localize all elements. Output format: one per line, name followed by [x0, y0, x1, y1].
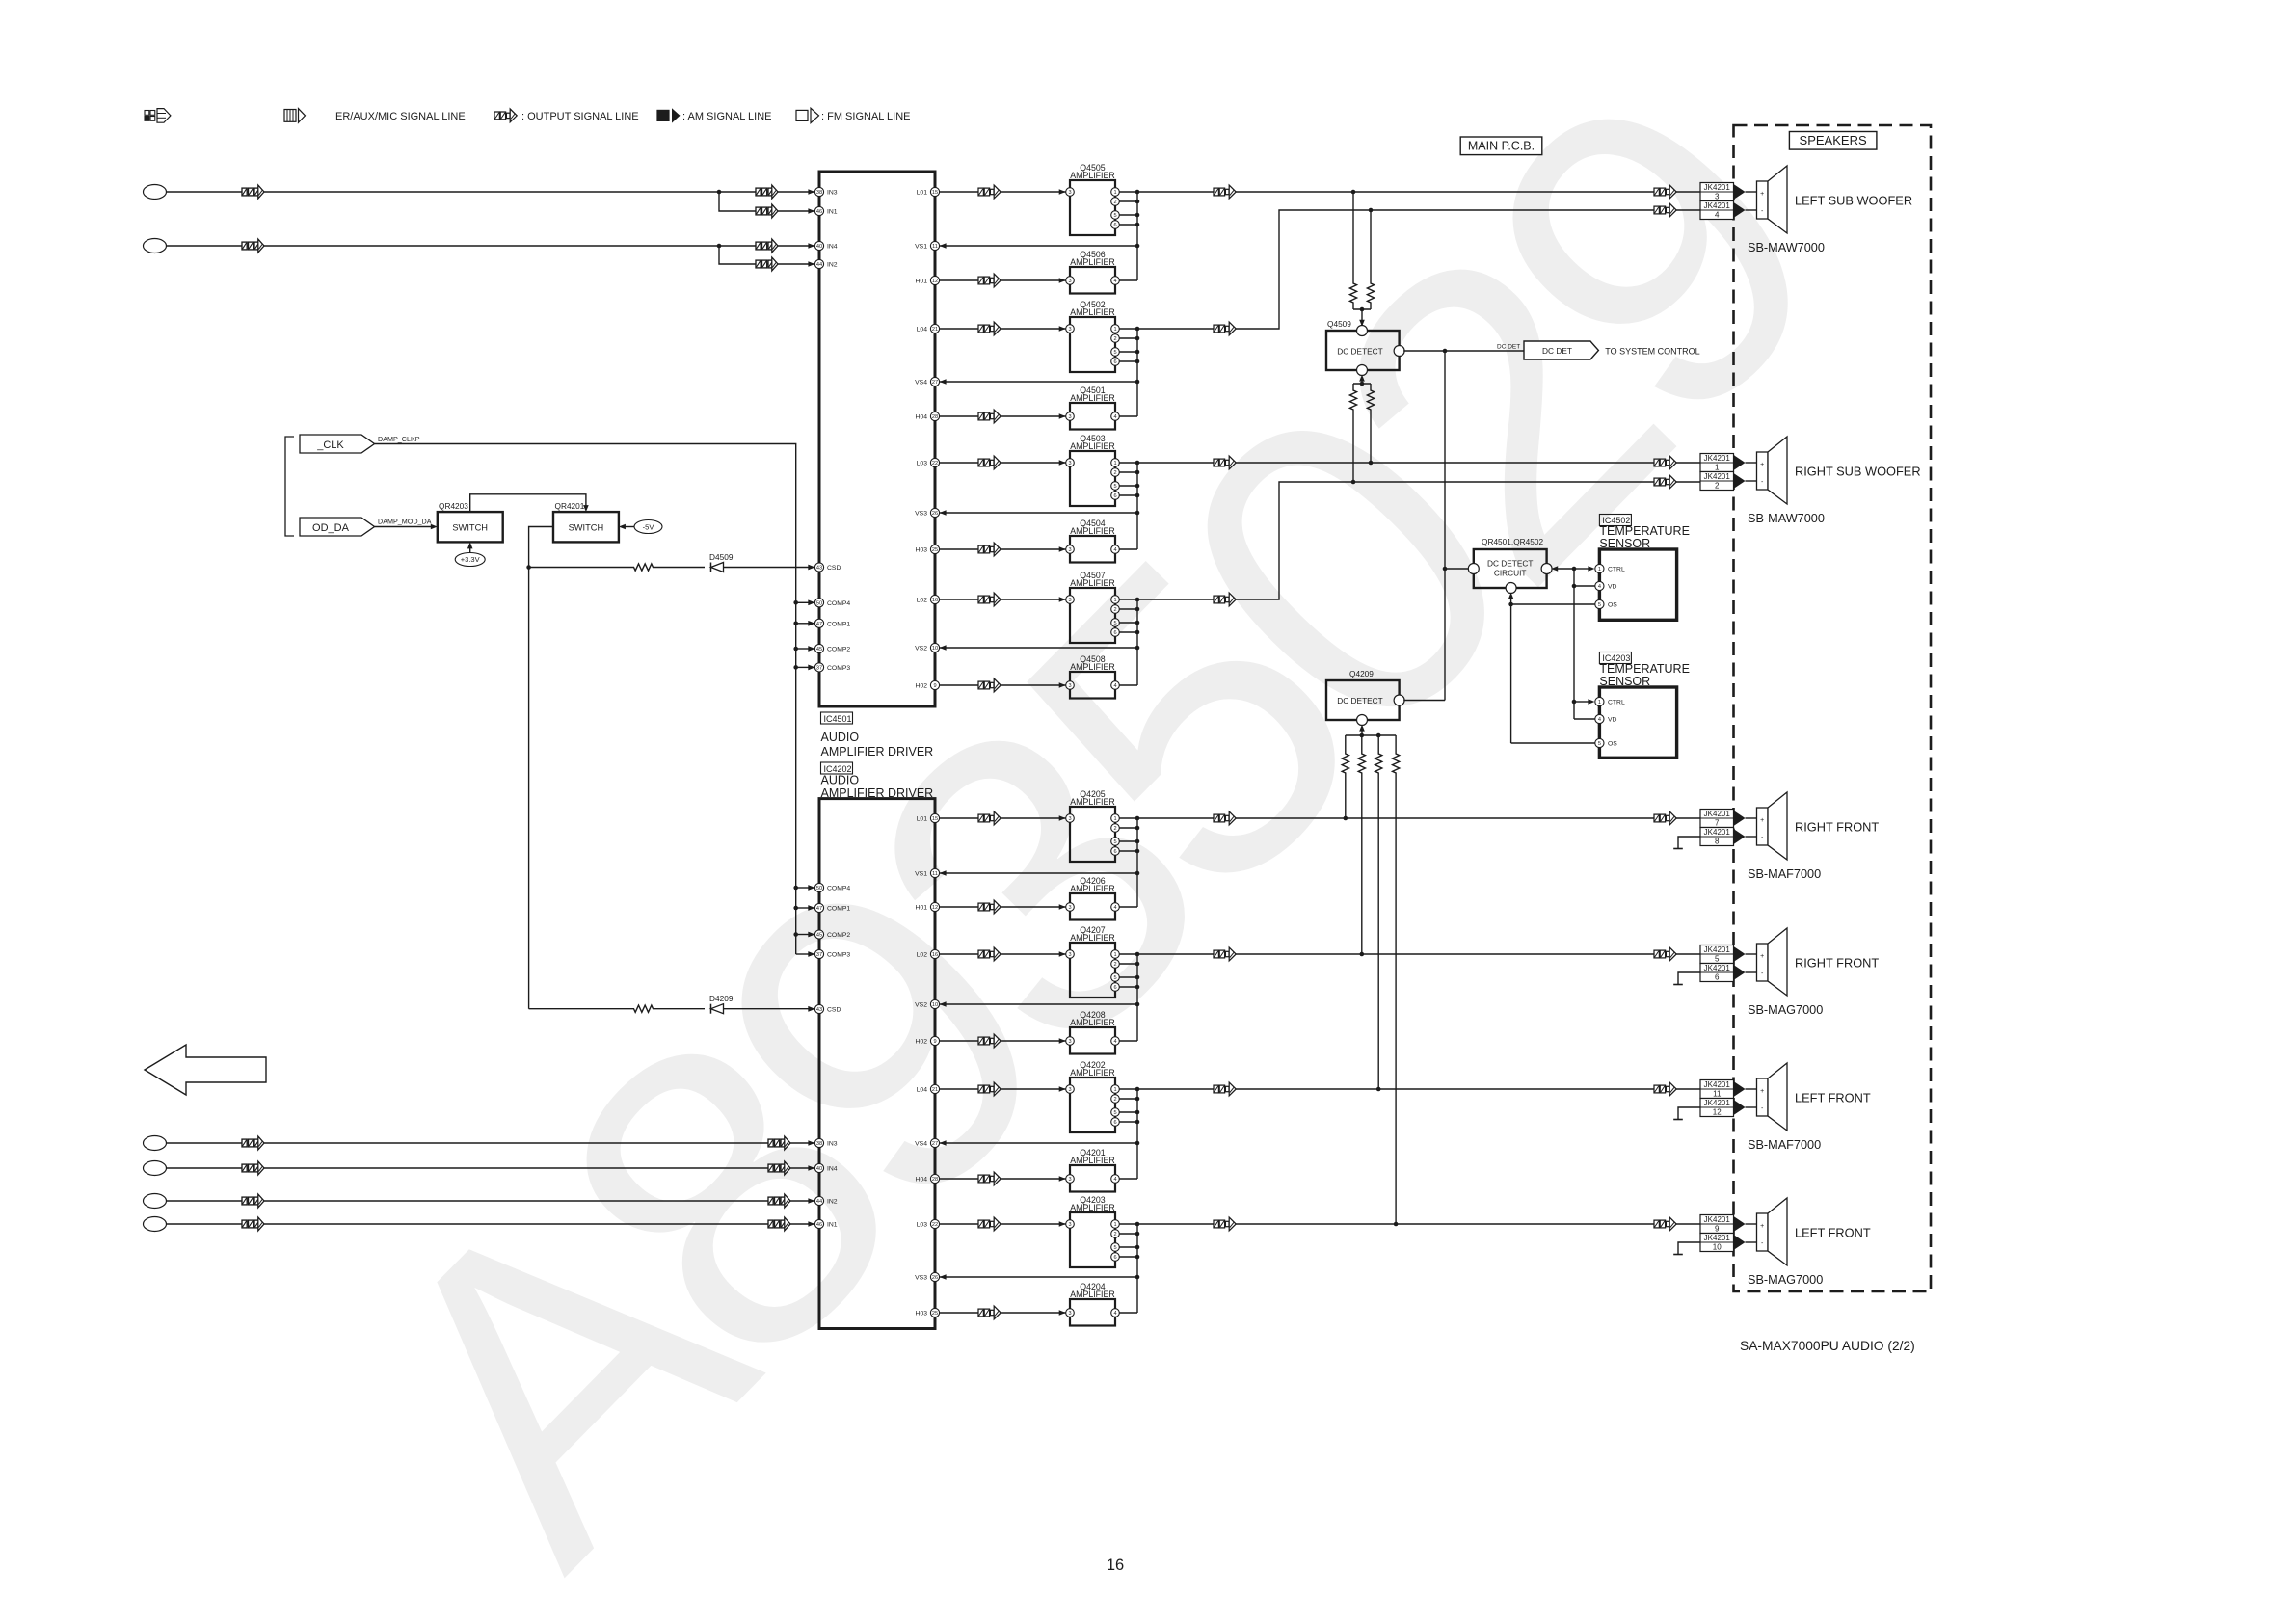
wire Q4202 pin to bus: [1119, 1098, 1137, 1100]
node flag _CLK: [300, 435, 375, 453]
svg-text:AMPLIFIER: AMPLIFIER: [1070, 1203, 1114, 1212]
svg-text:2: 2: [1113, 1232, 1116, 1237]
signal arrow: [242, 185, 264, 199]
svg-text:4: 4: [1113, 1311, 1116, 1317]
wire VS feedback: [940, 512, 1137, 514]
arrowhead: [1059, 815, 1066, 821]
IC U-IC4202 audio amplifier driver box: [819, 799, 935, 1329]
label SENSOR (IC4502): [1599, 537, 1650, 550]
arrowhead: [808, 885, 814, 891]
svg-text:DAMP_MOD_DA: DAMP_MOD_DA: [378, 518, 432, 526]
svg-text:4: 4: [1113, 683, 1116, 689]
junction: [793, 647, 798, 652]
label AMPLIFIER (Q4204): [1070, 1290, 1114, 1299]
signal arrow: [978, 900, 1001, 914]
junction: [793, 906, 798, 911]
label AMPLIFIER (Q4208): [1070, 1018, 1114, 1027]
svg-text:11: 11: [1713, 1090, 1722, 1099]
svg-text:40: 40: [816, 1166, 822, 1172]
arrowhead: [1059, 460, 1066, 466]
svg-text:9: 9: [933, 683, 936, 689]
svg-text:3: 3: [1068, 952, 1071, 958]
label AMPLIFIER (Q4508): [1070, 662, 1114, 672]
wire switch link: [470, 494, 586, 512]
signal arrow: [978, 274, 1001, 287]
svg-text:CSD: CSD: [827, 565, 841, 572]
signal arrow: [1214, 185, 1236, 199]
resistor: [1342, 735, 1348, 791]
arrowhead: [467, 542, 473, 548]
wire Q4505 pin to bus: [1119, 224, 1137, 226]
junction: [1135, 952, 1140, 957]
DC detect circuit QR4501,QR4502 box: [1468, 549, 1552, 594]
svg-text:21: 21: [932, 1087, 938, 1093]
svg-text:3: 3: [1068, 414, 1071, 420]
svg-text:27: 27: [932, 1141, 938, 1147]
svg-text:VS3: VS3: [915, 511, 927, 518]
wire VS feedback: [940, 1276, 1137, 1278]
wire sense from L01: [1352, 192, 1354, 277]
page arrow: [145, 1045, 266, 1095]
wire Q4203 output: [1119, 1223, 1236, 1225]
arrowhead: [1734, 184, 1746, 200]
junction: [1508, 602, 1513, 607]
wire input: [167, 1142, 815, 1144]
wire negative stub: [1678, 972, 1700, 985]
wire CTRL2: [1574, 701, 1589, 703]
svg-text:L03: L03: [917, 1222, 928, 1229]
label Q4506: [1080, 250, 1106, 259]
svg-text:VS4: VS4: [915, 1141, 927, 1148]
label Q4203: [1080, 1195, 1106, 1205]
junction: [1351, 480, 1356, 485]
svg-text:VS2: VS2: [915, 1002, 927, 1009]
arrowhead: [808, 621, 814, 626]
wire Q4207 pin to bus: [1119, 976, 1137, 978]
label AMPLIFIER DRIVER (IC4202): [821, 786, 934, 800]
legend symbol: AM signal line: [657, 108, 681, 122]
svg-text:6: 6: [1113, 359, 1116, 365]
switch QR4201 box: [553, 512, 619, 542]
signal arrow: [1214, 322, 1236, 335]
svg-text:4: 4: [1113, 905, 1116, 911]
terminator bar: [1673, 984, 1683, 986]
wire input: [167, 245, 815, 247]
svg-text:JK4201: JK4201: [1704, 828, 1731, 837]
wire DC bus: [1444, 351, 1446, 701]
svg-text:CSD: CSD: [827, 1007, 841, 1014]
junction: [793, 622, 798, 626]
pin 4 VD (IC4502): [1595, 581, 1617, 590]
title SA-MAX7000PU AUDIO (2/2): [1740, 1339, 1915, 1353]
label AUDIO (IC4501): [821, 731, 860, 744]
svg-text:AMPLIFIER DRIVER: AMPLIFIER DRIVER: [821, 786, 934, 800]
arrowhead: [1059, 1176, 1066, 1182]
svg-text:IN3: IN3: [827, 1141, 838, 1148]
svg-text:+: +: [1760, 191, 1764, 198]
wire Q4207 output: [1119, 953, 1236, 955]
svg-text:JK4201: JK4201: [1704, 1080, 1731, 1089]
junction: [1135, 826, 1140, 831]
label AMPLIFIER (Q4507): [1070, 578, 1114, 588]
wire VS feedback: [940, 1003, 1137, 1005]
junction: [1572, 567, 1577, 572]
svg-text:AUDIO: AUDIO: [821, 731, 860, 744]
wire L out to Q4502: [940, 328, 1066, 330]
legend symbol: ER/AUX/MIC signal line: [284, 109, 306, 123]
wire to speaker -: [1746, 836, 1757, 838]
svg-text:IN1: IN1: [827, 1222, 838, 1229]
wire Q4204 pin4 to bus: [1119, 1312, 1137, 1314]
svg-text:6: 6: [1113, 630, 1116, 636]
svg-text:28: 28: [932, 1177, 938, 1183]
signal arrow: [978, 678, 1001, 692]
signal arrow: [1654, 203, 1676, 217]
signal arrow: [1214, 456, 1236, 469]
svg-text:1: 1: [1113, 816, 1116, 822]
svg-text:CTRL: CTRL: [1608, 567, 1625, 573]
junction: [1135, 816, 1140, 821]
pin 25 H03: [916, 545, 940, 553]
svg-text:3: 3: [1068, 1039, 1071, 1045]
wire VD1: [1574, 585, 1595, 587]
junction: [1135, 336, 1140, 341]
svg-text:DAMP_CLKP: DAMP_CLKP: [378, 435, 420, 443]
svg-text:DC DET: DC DET: [1542, 346, 1572, 356]
label TEMPERATURE (IC4203): [1599, 662, 1690, 676]
svg-text:LEFT FRONT: LEFT FRONT: [1795, 1226, 1871, 1240]
signal arrow: [1654, 947, 1676, 961]
svg-text:2: 2: [1113, 200, 1116, 205]
svg-text:DC DETECT: DC DETECT: [1337, 347, 1382, 357]
wire bus: [1136, 818, 1138, 907]
junction: [1572, 700, 1577, 705]
junction: [1135, 607, 1140, 612]
svg-text:SB-MAG7000: SB-MAG7000: [1748, 1273, 1823, 1287]
svg-text:IN4: IN4: [827, 1166, 838, 1173]
pin 45 COMP2: [808, 930, 850, 939]
amplifier Q4202: [1066, 1078, 1120, 1132]
diode D4509: [711, 563, 724, 572]
terminator bar: [1673, 848, 1683, 850]
svg-text:4: 4: [1113, 1177, 1116, 1183]
pin 45 COMP2: [808, 644, 850, 652]
svg-text:25: 25: [932, 547, 938, 553]
svg-text:JK4201: JK4201: [1704, 964, 1731, 972]
wire sense: [1361, 791, 1363, 954]
svg-text:AMPLIFIER: AMPLIFIER: [1070, 1018, 1114, 1027]
svg-text:43: 43: [816, 566, 822, 572]
svg-text:+: +: [1760, 953, 1764, 960]
wire Q4205 pin to bus: [1119, 827, 1137, 829]
signal arrow: [242, 1217, 264, 1231]
label Q4207: [1080, 925, 1106, 935]
svg-text:+: +: [1760, 462, 1764, 468]
pin 47 COMP1: [808, 903, 850, 912]
svg-text:50: 50: [816, 600, 822, 606]
label Q4502: [1080, 300, 1106, 309]
svg-text:Q4509: Q4509: [1327, 319, 1351, 329]
svg-text:COMP4: COMP4: [827, 886, 850, 892]
arrowhead: [1734, 1235, 1746, 1250]
junction: [526, 565, 531, 570]
svg-text:4: 4: [1598, 584, 1601, 590]
svg-text:SWITCH: SWITCH: [569, 523, 604, 533]
power +3.3V: [455, 553, 485, 567]
signal arrow: [756, 239, 778, 253]
label AUDIO (IC4202): [821, 774, 860, 787]
wire VS feedback: [940, 1142, 1137, 1144]
svg-text:AMPLIFIER DRIVER: AMPLIFIER DRIVER: [821, 745, 934, 758]
junction: [1135, 484, 1140, 489]
arrowhead: [808, 665, 814, 671]
svg-text:2: 2: [1113, 470, 1116, 476]
svg-text:L04: L04: [917, 327, 928, 333]
svg-text:JK4201: JK4201: [1704, 945, 1731, 954]
svg-text:3: 3: [1068, 905, 1071, 911]
connector JK4201 pin 7: [1700, 810, 1734, 828]
junction: [1135, 1097, 1140, 1102]
label SB-MAG7000: [1748, 1273, 1823, 1287]
terminator bar: [1673, 1119, 1683, 1121]
label Q4505: [1080, 163, 1106, 173]
wire L out to Q4207: [940, 953, 1066, 955]
arrowhead: [1734, 1081, 1746, 1097]
junction: [1135, 223, 1140, 227]
svg-text:SENSOR: SENSOR: [1599, 675, 1650, 688]
speaker RIGHT FRONT: [1757, 928, 1788, 996]
DC detect Q4509 box: [1326, 326, 1404, 376]
wire Q4505 pin to bus: [1119, 214, 1137, 216]
label Q4205: [1080, 789, 1106, 799]
wire DAMP_CLKP: [375, 444, 796, 955]
wire L02 to right sub woofer -: [1236, 482, 1700, 599]
svg-text:AMPLIFIER: AMPLIFIER: [1070, 1156, 1114, 1165]
signal arrow: [978, 1082, 1001, 1096]
svg-text:+: +: [1760, 1088, 1764, 1095]
junction: [1135, 849, 1140, 854]
svg-text:RIGHT SUB WOOFER: RIGHT SUB WOOFER: [1795, 465, 1921, 479]
junction: [1135, 621, 1140, 625]
svg-text:COMP1: COMP1: [827, 621, 850, 627]
svg-text:2: 2: [1113, 336, 1116, 342]
resistor: [1393, 735, 1400, 791]
pin 21 L04: [917, 324, 940, 333]
label SPEAKERS box: [1789, 132, 1877, 150]
svg-text:4: 4: [1113, 547, 1116, 553]
svg-text:H03: H03: [916, 1311, 928, 1317]
svg-text:RIGHT FRONT: RIGHT FRONT: [1795, 820, 1879, 835]
svg-text:37: 37: [816, 665, 822, 671]
label D4509: [709, 552, 734, 562]
svg-text:4: 4: [1598, 717, 1601, 723]
wire Q4507 pin to bus: [1119, 622, 1137, 624]
legend text ER/AUX/MIC SIGNAL LINE: [335, 111, 466, 122]
wire L01 to left sub woofer +: [1236, 191, 1700, 193]
junction: [793, 932, 798, 937]
wire bus: [1136, 463, 1138, 549]
svg-text:ER/AUX/MIC SIGNAL LINE: ER/AUX/MIC SIGNAL LINE: [335, 111, 466, 122]
signal arrow: [978, 947, 1001, 961]
temperature sensor IC4203 box: [1599, 687, 1676, 758]
arrowhead: [1734, 1216, 1746, 1232]
svg-text:JK4201: JK4201: [1704, 1099, 1731, 1107]
svg-text:44: 44: [816, 1199, 822, 1205]
svg-text:DC DETECT: DC DETECT: [1487, 559, 1533, 569]
terminator bar: [1673, 1254, 1683, 1256]
arrowhead: [1734, 202, 1746, 218]
svg-text:COMP2: COMP2: [827, 932, 850, 939]
svg-text:CIRCUIT: CIRCUIT: [1494, 569, 1527, 578]
label RIGHT FRONT: [1795, 956, 1879, 971]
wire H out to Q4506: [940, 279, 1066, 281]
wire L04 to speaker: [1236, 1088, 1700, 1090]
label AMPLIFIER (Q4203): [1070, 1203, 1114, 1212]
svg-text:COMP1: COMP1: [827, 906, 850, 913]
label Q4206: [1080, 876, 1106, 886]
label Q4507: [1080, 571, 1106, 580]
svg-text:D4509: D4509: [709, 552, 734, 562]
legend text FM SIGNAL LINE: [821, 111, 911, 122]
connector JK4201 pin 6: [1700, 964, 1734, 982]
arrowhead: [1588, 699, 1594, 705]
svg-text:2: 2: [1715, 482, 1720, 491]
label SB-MAG7000: [1748, 1003, 1823, 1017]
svg-text:LEFT SUB WOOFER: LEFT SUB WOOFER: [1795, 194, 1912, 208]
switch QR4203 box: [438, 512, 503, 542]
junction: [1443, 349, 1448, 354]
wire Q4203 pin to bus: [1119, 1256, 1137, 1258]
wire input: [167, 191, 815, 193]
wire Q4501 pin4 to bus: [1119, 415, 1137, 417]
svg-text:: OUTPUT SIGNAL LINE: : OUTPUT SIGNAL LINE: [521, 111, 639, 122]
svg-text:1: 1: [1113, 952, 1116, 958]
svg-text:JK4201: JK4201: [1704, 183, 1731, 192]
svg-text:RIGHT FRONT: RIGHT FRONT: [1795, 956, 1879, 971]
wire DAMP_MOD_DA: [375, 526, 434, 528]
wire to speaker +: [1746, 817, 1757, 819]
pin 47 COMP1: [808, 619, 850, 627]
label Q4204: [1080, 1282, 1106, 1291]
wire to speaker -: [1746, 971, 1757, 973]
arrowhead: [1059, 189, 1066, 195]
pin 26 VS3: [915, 1272, 939, 1281]
junction: [1135, 470, 1140, 475]
label QR4203: [439, 501, 468, 511]
signal arrow: [1654, 1217, 1676, 1231]
resistor: [1349, 384, 1356, 416]
svg-text:1: 1: [1598, 567, 1601, 572]
svg-text:16: 16: [1107, 1556, 1124, 1574]
svg-text:4: 4: [1113, 279, 1116, 284]
svg-text:27: 27: [932, 380, 938, 386]
svg-text:AMPLIFIER: AMPLIFIER: [1070, 171, 1114, 180]
svg-text:15: 15: [932, 190, 938, 196]
svg-text:1: 1: [1113, 1222, 1116, 1228]
svg-text:15: 15: [932, 816, 938, 822]
wire bus: [1136, 1224, 1138, 1313]
wire COMP tap: [796, 601, 811, 603]
junction: [1135, 1002, 1140, 1007]
pin 43 CSD: [808, 1004, 841, 1013]
svg-text:3: 3: [1715, 193, 1720, 201]
signal arrow: [978, 593, 1001, 606]
svg-text:3: 3: [1068, 1222, 1071, 1228]
svg-text:44: 44: [816, 262, 822, 268]
wire negative stub: [1678, 1242, 1700, 1255]
wire COMP tap: [796, 648, 811, 650]
wire: [724, 1008, 811, 1010]
svg-text:-5V: -5V: [643, 523, 654, 532]
svg-text:COMP3: COMP3: [827, 952, 850, 959]
svg-text:3: 3: [1068, 816, 1071, 822]
svg-text:L01: L01: [917, 816, 928, 823]
pin 1 CTRL (IC4203): [1595, 697, 1625, 705]
svg-text:5: 5: [1715, 955, 1720, 964]
svg-text:26: 26: [932, 511, 938, 517]
arrowhead: [940, 379, 947, 385]
arrowhead: [583, 505, 589, 512]
svg-text:45: 45: [816, 647, 822, 652]
page number 16: [1107, 1556, 1124, 1574]
pin 16 L02: [917, 949, 940, 958]
pin 21 L04: [917, 1084, 940, 1093]
svg-text:VS3: VS3: [915, 1275, 927, 1282]
svg-text:AMPLIFIER: AMPLIFIER: [1070, 393, 1114, 403]
signal arrow: [768, 1194, 790, 1208]
wire Q4502 pin to bus: [1119, 360, 1137, 362]
svg-text:+3.3V: +3.3V: [461, 555, 480, 564]
junction: [793, 665, 798, 670]
junction: [1376, 1087, 1381, 1092]
signal arrow: [756, 185, 778, 199]
svg-text:AMPLIFIER: AMPLIFIER: [1070, 1068, 1114, 1078]
amplifier Q4508: [1066, 672, 1120, 699]
pin 25 H03: [916, 1308, 940, 1317]
wire: [654, 567, 705, 569]
pin 11 VS1: [915, 241, 939, 250]
junction: [1360, 733, 1365, 738]
label QR4201: [555, 501, 585, 511]
junction: [1369, 208, 1374, 213]
svg-text:TEMPERATURE: TEMPERATURE: [1599, 524, 1690, 538]
pin 22 L03: [917, 1219, 940, 1228]
label SB-MAF7000: [1748, 867, 1821, 881]
arrowhead: [940, 510, 947, 516]
signal arrow: [756, 257, 778, 271]
svg-text:1: 1: [1113, 598, 1116, 603]
svg-text:AMPLIFIER: AMPLIFIER: [1070, 884, 1114, 893]
label AMPLIFIER (Q4201): [1070, 1156, 1114, 1165]
svg-text:COMP3: COMP3: [827, 665, 850, 672]
pin 12 H01: [916, 276, 940, 284]
pin 4 VD (IC4203): [1595, 714, 1617, 723]
signal arrow: [1654, 811, 1676, 825]
junction: [1135, 461, 1140, 466]
svg-text:37: 37: [816, 952, 822, 958]
input terminal oval: [144, 1194, 167, 1209]
junction: [1135, 975, 1140, 980]
junction: [1351, 190, 1356, 195]
junction: [1135, 1141, 1140, 1146]
wire Q4502 pin to bus: [1119, 337, 1137, 339]
junction: [1135, 839, 1140, 844]
amplifier Q4501: [1066, 403, 1120, 430]
wire L01 to speaker: [1236, 817, 1700, 819]
wire sense to L03: [1370, 416, 1372, 463]
label IC4501: [821, 712, 853, 724]
signal arrow: [242, 239, 264, 253]
